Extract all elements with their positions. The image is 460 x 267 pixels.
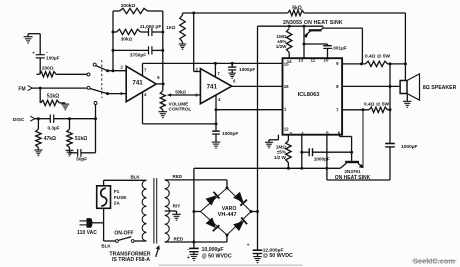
ground (IC pin12) [265,141,273,143]
ground (47k) [37,148,39,151]
wire -rail left riser [193,168,195,242]
wire + ground (51k FM) [59,102,65,104]
svg-text:RED: RED [174,237,184,242]
svg-text:16: 16 [284,84,289,89]
wire +DC bus vertical [257,26,259,250]
svg-text:10,000µF: 10,000µF [202,247,224,253]
wire U2 output to IC pin16 [232,85,283,87]
svg-text:+: + [247,242,250,247]
svg-text:14: 14 [287,59,292,64]
resistor 30k + capacitor 11,000pF row [113,31,117,33]
wire bridge bottom vertex [226,235,228,242]
svg-text:@ 50 WVDC: @ 50 WVDC [202,253,232,259]
ground (1000pF rail) [229,72,236,74]
transformer T1 secondary coil [165,180,170,242]
svg-text:0.3µF: 0.3µF [47,125,59,130]
node [250,210,253,213]
svg-text:BLK: BLK [101,243,111,248]
capacitor 10,000uF @50WVDC [193,242,195,248]
wire IC pin12 to ground [277,135,279,140]
transformer core [153,178,155,244]
svg-text:1000pF: 1000pF [222,131,238,136]
svg-text:200Ω: 200Ω [42,65,54,70]
svg-text:1/2 W: 1/2 W [274,155,287,160]
node pole2 common [106,92,109,95]
capacitor 11000pF [148,28,150,36]
svg-text:51kΩ: 51kΩ [75,136,87,142]
svg-text:ICL8063: ICL8063 [298,92,320,98]
svg-text:50kΩ: 50kΩ [175,89,186,94]
ground (volume) [159,111,168,113]
resistor 1K to ground [182,13,184,15]
svg-text:0.4Ω @ 5W: 0.4Ω @ 5W [365,54,391,60]
node [112,31,115,34]
svg-text:VH-447: VH-447 [218,212,237,218]
node [215,122,218,125]
wire top rail with 5k [183,12,288,14]
svg-text:11: 11 [311,58,316,63]
node [350,151,353,154]
node [287,167,290,170]
node U1 output [162,82,165,85]
ground (speaker) [406,94,408,102]
svg-text:200kΩ: 200kΩ [121,3,136,9]
svg-text:47kΩ: 47kΩ [44,136,56,142]
node bridge left vertex [192,210,195,213]
svg-text:8Ω SPEAKER: 8Ω SPEAKER [423,85,457,91]
svg-text:1000µF: 1000µF [401,144,417,150]
speaker 8ohm [400,81,407,94]
node DISC riser junction [94,117,97,120]
node [192,241,195,244]
svg-text:51kΩ: 51kΩ [47,93,59,99]
svg-text:2N3055 ON HEAT SINK: 2N3055 ON HEAT SINK [283,20,343,26]
capacitor 1000uF (output) [385,143,395,145]
wire 200ohm to switch [56,73,87,75]
wire bridge right vertex to +bus [251,211,258,213]
wire U1 pin4 down [142,92,144,124]
ground (12000uF) [253,256,262,258]
wire top rail riser to U2 pin2 [193,13,195,72]
svg-text:BLK: BLK [130,174,140,179]
wire right vertical joining 0.4ohm resistors [389,64,391,144]
node [112,49,115,52]
wire IC pin7 row + resistor 0.4ohm @5W (lower) [342,109,369,111]
svg-text:+: + [187,255,190,261]
svg-text:ON-OFF: ON-OFF [114,231,133,237]
wire DISC line [35,118,51,120]
capacitor 12,000uF @50WVDC [253,249,263,251]
svg-text:12: 12 [284,127,289,132]
switch contact (pole2 lower, to DISC) [94,102,97,105]
svg-text:30kΩ: 30kΩ [121,37,133,42]
svg-text:3750pF: 3750pF [130,52,146,57]
node [300,151,303,154]
node [288,25,291,28]
wire bridge top vertex [226,180,228,188]
svg-text:100µF: 100µF [46,55,60,60]
svg-text:0.4Ω @ 5W: 0.4Ω @ 5W [364,101,390,107]
wire pole1 to op-amp pin2 [108,70,127,72]
capacitor 0.3uF (DISC coupling) [49,115,51,123]
node [303,43,306,46]
bridge rectifier VARO VH-447 diamond [201,188,252,235]
diode D4 (bottom-right) [233,221,244,231]
node [256,210,259,213]
svg-text:11,000 pF: 11,000 pF [140,24,162,30]
wire top rail corner to speaker [404,13,406,81]
wire pole2 to op-amp pin3 [108,93,127,95]
capacitor .001uF [304,43,328,45]
node [303,25,306,28]
wire RED bottom [165,241,194,243]
wire RED top (secondary to bridge) [165,179,227,181]
op-amp U2 741 [200,69,231,104]
potentiometer 50k VOLUME CONTROL [162,84,164,91]
svg-text:1KΩ: 1KΩ [166,25,176,30]
svg-text:.001µF: .001µF [332,45,347,50]
resistor 200k (feedback) [113,10,120,12]
node [300,167,303,170]
switch contact (pole1 left, from 200ohm) [87,73,90,76]
svg-text:1/2W: 1/2W [276,44,287,49]
wire secondary center tap R/Y [165,210,177,212]
transistor Q1 2N3055 [309,29,322,31]
resistor 51k (post-cap) [69,119,71,129]
wire feedback left vertical [112,11,114,71]
node 47k top [37,117,40,120]
switch contact (pole2 left, from FM) [87,86,90,89]
node 51k top [68,117,71,120]
diode D2 (top-right) [233,192,243,203]
wire IC pin9 row + resistor 0.4ohm @5W (upper) [342,63,365,65]
capacitor 3750pF row [113,49,149,51]
wire feedback right vertical [162,11,164,84]
wire FM to switch [32,87,87,89]
ground (center tap) [172,213,181,215]
svg-text:741: 741 [132,79,143,86]
switch S1 (2-pole selector) gang dashes [101,60,103,98]
wire IC pin4 down to -rail [301,135,303,169]
node [215,108,218,111]
node [112,69,115,72]
wire U1 pin7 to +rail [142,63,144,75]
wire U2 pin4 down [215,95,217,110]
svg-text:10: 10 [324,58,329,63]
switch arm pole2 [90,89,108,94]
wire [28,33,40,35]
wire U1 pin4 line [143,123,217,125]
switch ON-OFF [104,240,116,242]
fuse F1 2A [103,180,105,186]
wire U2 pin7 to rail [214,63,216,77]
ground (1000pF V-) [212,141,221,143]
svg-text:110 VAC: 110 VAC [77,230,97,236]
wire + ground (51k) [69,148,71,153]
resistor 1M 5% 1/2W (top) [287,29,292,53]
node FM junction [39,87,42,90]
svg-text:741: 741 [207,84,218,91]
ground (1K) [179,43,187,45]
wire [54,118,96,120]
svg-text:VARO: VARO [222,206,237,212]
resistor 47k [37,119,39,129]
capacitor 1000pF (bias) [302,151,309,153]
switch contact (pole1 upper) [93,63,96,66]
wire op-amp V+ rail [143,62,283,64]
wire 2N3055 feed [258,25,324,27]
wire riser to IC pin13 [303,26,305,58]
wire 50pF to riser [81,152,96,154]
wire -rail horizontal [194,167,340,169]
svg-text:CONTROL: CONTROL [169,106,192,111]
wire IC pin5 down [326,135,328,180]
svg-text:13: 13 [298,58,303,63]
wire 2N3055 emitter to 0.4ohm [323,27,362,29]
svg-text:F1: F1 [114,189,120,195]
resistor 1M 5% 1/2W (bottom) [287,135,289,141]
op-amp U1 741 [126,66,156,102]
svg-text:1000pF: 1000pF [239,67,255,72]
node [214,62,217,65]
diode D3 (left-bottom) [206,217,216,228]
plug 110 VAC [80,220,87,222]
wire U2 pin4 line to IC pin1 [216,109,283,111]
op-amp U3 ICL8063 power amp IC [283,58,343,135]
svg-text:@ 50 WVDC: @ 50 WVDC [263,253,293,259]
svg-text:DISC: DISC [13,117,25,123]
svg-text:2N3791: 2N3791 [344,169,361,174]
diode D1 (left-top) [206,195,217,205]
node [192,12,195,15]
svg-text:5kΩ: 5kΩ [292,6,302,12]
transistor Q2 2N3791 [351,152,353,161]
svg-text:±5%: ±5% [277,150,286,155]
resistor 200ohm [37,73,40,75]
node [231,62,234,65]
ground (top-left, above C 100uF) [24,36,33,38]
capacitor 100uF (electrolytic) [36,54,45,56]
node pole1 common [106,69,109,72]
wire riser to switch contact [95,119,97,153]
node [325,167,328,170]
wire [159,264,303,266]
wire IC pin8 row (speaker feed) [342,85,400,87]
svg-text:2A: 2A [114,201,121,207]
svg-text:FM: FM [18,86,25,92]
svg-text:R/Y: R/Y [173,204,181,209]
capacitor 1000pF (rail decoupling) [231,63,233,67]
wire primary top BLK [104,179,147,181]
svg-text:RED: RED [173,174,183,179]
wire -rail lower jog [327,179,390,181]
wiper arrow [170,94,201,96]
transformer T1 primary coil [142,180,147,241]
svg-text:+: + [32,50,35,55]
resistor 51k (FM shunt) [39,88,41,103]
svg-text:FUSE: FUSE [114,195,128,201]
wire IC pin6 to Q2 [339,135,341,137]
capacitor 50pF [70,152,78,154]
ground (10000uF) [190,253,199,255]
switch arm pole1 [96,66,108,71]
svg-text:IS TRIAD F58-A: IS TRIAD F58-A [112,257,150,263]
svg-text:50pF: 50pF [76,156,87,161]
capacitor 1000pF (op-amp V-) [215,110,217,131]
